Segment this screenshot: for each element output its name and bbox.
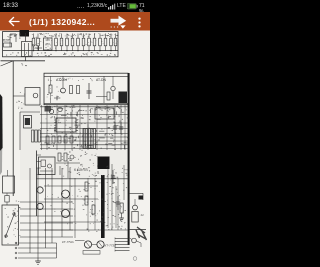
- wire ties: [20, 111, 40, 113]
- transistor VT5: [61, 88, 66, 93]
- resistor R2 in filter row: [37, 34, 39, 39]
- sensor body box: [132, 212, 138, 223]
- transistor VT3: [33, 93, 38, 98]
- resistor R10 in filter row: [94, 34, 96, 39]
- transistor VT14: [97, 241, 104, 248]
- resistor R5 in filter row: [66, 34, 68, 39]
- labels above filter row: [93, 32, 96, 35]
- page curl mark: [133, 257, 137, 261]
- transistor VT9: [37, 187, 43, 193]
- schematic drawing: [0, 0, 150, 267]
- schematic page background: [0, 31, 150, 267]
- resistor R8 in filter row: [83, 34, 85, 39]
- svg-text:К КОНТР.: К КОНТР.: [74, 168, 88, 172]
- switch SA1: [10, 33, 16, 35]
- action bar: [0, 12, 150, 31]
- dense parts right of regulator: [58, 153, 61, 161]
- transformer T2 winding hatch: [83, 129, 85, 148]
- bus wire in standby board: [44, 75, 128, 77]
- indicator circle bottom right: [132, 238, 137, 243]
- micro labels dense right column: [120, 205, 121, 208]
- connector X1 stack: [115, 238, 130, 240]
- wires central grid: [40, 106, 128, 108]
- wire diagonal: [1, 61, 14, 66]
- resistor R4 in filter row: [61, 34, 63, 39]
- extra micro labels in filter row: [38, 42, 40, 45]
- driver block box: [24, 116, 32, 129]
- wire horizontal left: [1, 60, 46, 62]
- ground symbol near R44: [121, 213, 123, 218]
- bracket wire right margin: [130, 192, 143, 194]
- resistor R33: [38, 130, 40, 142]
- junction dots on bus: [33, 50, 34, 51]
- filter box FL1 left: [3, 176, 15, 193]
- svg-text:КТ-773В: КТ-773В: [105, 244, 117, 248]
- resistor R6 in filter row: [72, 34, 74, 39]
- left rail of output stage: [36, 151, 38, 217]
- wire stubs central: [97, 118, 101, 120]
- transistor VT11 output: [62, 190, 70, 198]
- wire in standby board: [96, 96, 107, 98]
- standby board box: [44, 73, 128, 105]
- capacitor C2 box: [44, 38, 53, 50]
- resistor R13 in filter row: [110, 34, 112, 39]
- regulator sub-box: [39, 157, 56, 175]
- status bar: [0, 0, 150, 12]
- svg-text:220: 220: [3, 39, 9, 43]
- resistor R22: [77, 86, 80, 94]
- micro labels central area: [84, 122, 85, 125]
- stamp scribble dark: [136, 227, 147, 240]
- wire stub: [103, 76, 105, 103]
- back arrow icon: [8, 16, 20, 27]
- transistor VT7: [49, 109, 53, 113]
- scan shading dense band: [20, 103, 128, 180]
- wire: [13, 95, 25, 97]
- sensor circle: [133, 205, 138, 210]
- resistor R24: [107, 92, 110, 100]
- wires right column: [107, 165, 109, 228]
- relay internal marks: [5, 207, 6, 210]
- svg-text:КТ-773А: КТ-773А: [62, 240, 74, 244]
- capacitor C14: [88, 83, 90, 99]
- power input section box: [3, 32, 119, 57]
- bus wire top: [3, 50, 118, 52]
- resistor R14 in filter row: [115, 34, 117, 39]
- dark element inside driver: [25, 118, 30, 125]
- labels row inside standby board: [60, 77, 61, 80]
- capacitor C31: [112, 170, 114, 184]
- resistor R9 in filter row: [88, 34, 90, 39]
- labels B+ BATT: [107, 109, 108, 112]
- resistor R11 in filter row: [99, 34, 101, 39]
- resistor R3 in filter row: [55, 34, 57, 39]
- emitter resistor R41: [85, 182, 88, 191]
- resistor R1 in filter row: [33, 34, 35, 39]
- svg-text:AT-DN: AT-DN: [96, 78, 106, 82]
- wire stub with label 1W: [25, 57, 27, 61]
- battery percent 71 %: [139, 3, 150, 15]
- notification dots: [77, 4, 84, 10]
- clock 18:33: [3, 3, 18, 9]
- wires lower center: [44, 185, 98, 187]
- LTE label: [117, 3, 126, 9]
- resistor R20: [49, 85, 52, 93]
- wire horizontal boundary: [37, 178, 128, 180]
- wire vertical from C1: [25, 33, 27, 42]
- signal bars icon: [108, 2, 116, 10]
- transistor VT13: [84, 241, 91, 248]
- resistor R44: [120, 203, 123, 213]
- black module (dark blob): [98, 157, 110, 170]
- resistor R12 in filter row: [105, 34, 107, 39]
- battery icon green: [127, 3, 138, 10]
- relay K1 (dark box): [119, 92, 128, 104]
- wire long vertical left rail: [12, 61, 14, 196]
- micro labels lower right region: [83, 203, 86, 204]
- label plate under transistors: [83, 251, 100, 255]
- resistor R43: [92, 205, 95, 214]
- component row under IC: [46, 136, 49, 143]
- ground symbol below ladder: [37, 258, 39, 261]
- labels mid section top box: [34, 36, 35, 39]
- parts inside regulator box: [41, 160, 46, 167]
- emitter resistor R42: [85, 196, 88, 205]
- overflow menu dots: [137, 17, 142, 28]
- labels below filter row: [72, 52, 74, 55]
- capacitor C21: [114, 122, 116, 134]
- svg-text:42: 42: [141, 213, 145, 217]
- page corner shadow left: [0, 94, 3, 151]
- transistor VT10: [37, 203, 43, 209]
- IC U3 box: [95, 108, 114, 119]
- bus vertical taps: [29, 168, 31, 253]
- optocoupler U2 box: [25, 88, 40, 106]
- transistor VT12 output: [62, 210, 70, 218]
- resistor R21: [70, 86, 73, 94]
- wire right margin lower: [130, 229, 146, 231]
- page edge line right: [128, 73, 130, 245]
- resistor R51 below filter: [5, 196, 9, 203]
- diode VD1: [35, 47, 42, 49]
- diode VD5: [54, 97, 60, 99]
- terminal block dark: [139, 196, 144, 200]
- transformer T1 (dark core): [20, 30, 30, 37]
- capacitor C22: [120, 122, 122, 134]
- transistor VT6: [111, 86, 115, 90]
- connector bus ladder upper: [20, 201, 73, 203]
- labels left section: [9, 38, 11, 41]
- capacitor C1 block: [22, 42, 33, 57]
- resistor R7 in filter row: [77, 34, 79, 39]
- main control IC U1 box: [56, 118, 76, 132]
- wire bottom transistor row: [75, 240, 85, 242]
- bus right end vertical: [56, 243, 58, 258]
- heatsink bar: [101, 175, 105, 238]
- data speed 1,23KB/c: [87, 3, 107, 9]
- capacitor C32: [117, 196, 119, 210]
- title (1/1) 1320942...: [29, 17, 95, 27]
- resistor R32: [35, 130, 37, 142]
- share forward icon: [109, 14, 128, 30]
- connector bus ladder lower: [18, 242, 57, 244]
- transistor VT8: [58, 107, 62, 111]
- wire from filter up: [7, 170, 9, 176]
- divider wire bottom of standby board: [44, 102, 128, 104]
- junction cluster: [45, 106, 52, 112]
- resistor R31: [32, 130, 34, 142]
- relay K2 box with switch: [2, 205, 19, 245]
